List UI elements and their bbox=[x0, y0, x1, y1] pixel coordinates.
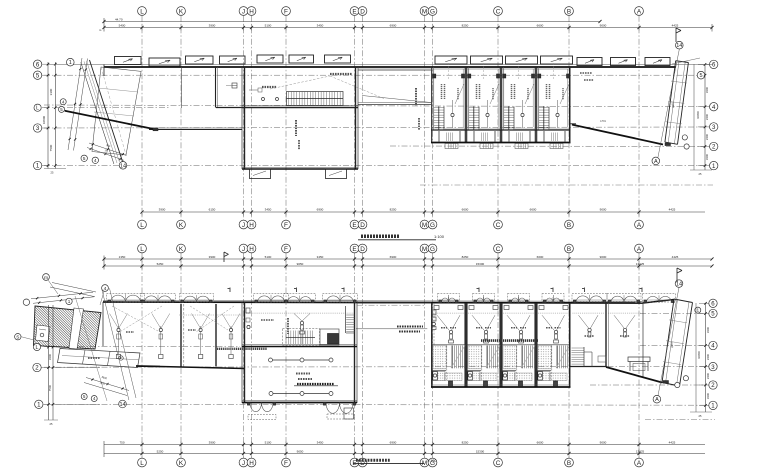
svg-text:7500: 7500 bbox=[48, 384, 52, 391]
svg-text:14: 14 bbox=[676, 282, 682, 288]
svg-text:F: F bbox=[284, 222, 288, 229]
right row bubbles top plan bbox=[652, 41, 718, 169]
middle hall radiator runs bbox=[269, 358, 339, 396]
annex corridor white band bbox=[69, 308, 84, 349]
svg-text:K: K bbox=[179, 222, 184, 229]
svg-text:10800: 10800 bbox=[697, 351, 701, 359]
middle hall east stair fragment bbox=[346, 306, 355, 333]
bottom plan north wall bbox=[103, 300, 674, 304]
svg-text:8250: 8250 bbox=[390, 208, 397, 212]
module B3 upper fixtures bbox=[503, 295, 534, 343]
module T4 interior annotation bbox=[538, 63, 570, 128]
top plan terrace right of modules bbox=[416, 67, 594, 143]
svg-text:K: K bbox=[179, 246, 184, 253]
svg-text:8250: 8250 bbox=[462, 24, 469, 28]
svg-text:9000: 9000 bbox=[600, 255, 607, 259]
svg-text:14: 14 bbox=[119, 402, 125, 408]
svg-text:3900: 3900 bbox=[159, 208, 166, 212]
svg-text:J: J bbox=[242, 246, 245, 253]
module B4 stair bbox=[538, 346, 570, 381]
annex leader circles left bbox=[15, 274, 109, 340]
horizontal row axes bottom plan bbox=[44, 314, 715, 420]
middle hall stair top plan bbox=[287, 92, 344, 106]
unit B5 small stair bbox=[572, 347, 593, 367]
svg-text:M: M bbox=[422, 246, 427, 253]
svg-text:6900: 6900 bbox=[390, 255, 397, 259]
units east of module row (bottom plan) bbox=[570, 302, 643, 377]
svg-text:3300: 3300 bbox=[706, 326, 710, 333]
svg-text:F: F bbox=[284, 460, 288, 467]
svg-text:m: m bbox=[44, 276, 48, 281]
svg-text:4: 4 bbox=[94, 158, 97, 163]
mid annotation text strip left wing bbox=[217, 348, 267, 350]
svg-text:6600: 6600 bbox=[462, 208, 469, 212]
bottom dimension line of top plan bbox=[140, 208, 705, 216]
svg-text:J: J bbox=[242, 8, 245, 15]
module B1 west wall valve cluster bbox=[432, 303, 437, 345]
svg-text:H: H bbox=[249, 246, 254, 253]
module T1 interior annotation bbox=[433, 63, 465, 128]
module T1 stair bbox=[434, 107, 444, 131]
svg-text:3300: 3300 bbox=[48, 353, 52, 360]
svg-text:M: M bbox=[422, 222, 427, 229]
left wing walls bottom plan bbox=[103, 302, 245, 369]
module T4 stair bbox=[539, 107, 549, 131]
right dimension line top plan bbox=[676, 28, 712, 176]
left row bubbles top plan bbox=[33, 60, 66, 170]
svg-text:4: 4 bbox=[712, 104, 716, 111]
module B2 lower rooms bbox=[466, 370, 497, 386]
tilted annex bottom plan right bbox=[662, 299, 693, 386]
svg-text:A: A bbox=[655, 397, 659, 403]
svg-text:3450: 3450 bbox=[265, 208, 272, 212]
bottom plan entrance door arcs bbox=[108, 294, 674, 303]
svg-text:6900: 6900 bbox=[390, 24, 397, 28]
svg-text:13425: 13425 bbox=[636, 262, 645, 266]
unit B5/B6 upper fixtures bbox=[573, 313, 642, 337]
top dimension lines of bottom plan bbox=[102, 255, 713, 270]
module B1 upper fixtures bbox=[433, 295, 464, 343]
middle hall bottom plan walls bbox=[242, 302, 357, 403]
module B3 walls bbox=[501, 303, 536, 387]
svg-text:K: K bbox=[179, 8, 184, 15]
svg-text:3300: 3300 bbox=[706, 392, 710, 399]
svg-text:E: E bbox=[352, 8, 356, 15]
svg-text:4: 4 bbox=[104, 286, 107, 292]
svg-text:C: C bbox=[496, 460, 501, 467]
svg-text:5250: 5250 bbox=[157, 450, 164, 454]
svg-text:B: B bbox=[567, 246, 571, 253]
horizontal row axes top plan bbox=[44, 75, 713, 185]
svg-text:L: L bbox=[36, 106, 39, 112]
section flag bottom right bbox=[676, 268, 678, 282]
svg-text:8250: 8250 bbox=[462, 441, 469, 445]
svg-text:L: L bbox=[36, 345, 39, 351]
module B3 stair bbox=[503, 346, 535, 381]
module T4 entry steps bbox=[544, 129, 571, 149]
middle hall annotations bbox=[249, 74, 385, 150]
svg-text:5100: 5100 bbox=[265, 441, 272, 445]
module T3 interior annotation bbox=[503, 63, 535, 128]
annex tilted dimension lines (bottom plan) bbox=[31, 292, 95, 304]
module B1 stair bbox=[433, 346, 465, 381]
svg-text:5250: 5250 bbox=[157, 262, 164, 266]
left row bubbles bottom plan bbox=[33, 343, 100, 408]
vertical grid axes top plan bbox=[142, 16, 639, 220]
svg-text:4425: 4425 bbox=[669, 441, 676, 445]
svg-text:14: 14 bbox=[676, 43, 682, 49]
annex small room bbox=[36, 325, 51, 342]
annotation strip across module row bbox=[481, 339, 538, 342]
tilted annex axis circles bbox=[67, 58, 127, 169]
svg-text:10800: 10800 bbox=[42, 115, 46, 124]
grid axis bubbles bottom row bbox=[138, 458, 644, 467]
module B1 walls bbox=[431, 303, 466, 387]
module T2 entry steps bbox=[474, 129, 501, 149]
svg-text:13425: 13425 bbox=[636, 450, 645, 454]
svg-text:2400: 2400 bbox=[706, 353, 710, 360]
svg-text:3450: 3450 bbox=[317, 441, 324, 445]
svg-text:F: F bbox=[284, 8, 288, 15]
svg-text:M: M bbox=[422, 8, 427, 15]
svg-text:3300: 3300 bbox=[49, 88, 53, 95]
grid axis bubbles below top plan bbox=[138, 220, 644, 229]
tilted annex top-left: main hall outline bbox=[92, 67, 141, 155]
P marks above canopies bbox=[228, 288, 643, 293]
svg-text:1:100: 1:100 bbox=[434, 234, 445, 239]
svg-text:3900: 3900 bbox=[209, 24, 216, 28]
svg-text:3900: 3900 bbox=[209, 441, 216, 445]
module B2 stair bbox=[468, 346, 500, 381]
module B4 walls bbox=[536, 303, 571, 387]
svg-text:7500: 7500 bbox=[49, 144, 53, 151]
svg-text:4425: 4425 bbox=[672, 24, 679, 28]
svg-text:H: H bbox=[249, 222, 254, 229]
svg-text:1:100: 1:100 bbox=[427, 459, 437, 463]
svg-text:750: 750 bbox=[119, 441, 124, 445]
svg-text:9000: 9000 bbox=[600, 208, 607, 212]
module B4 upper fixtures bbox=[538, 295, 569, 343]
tilted annex top-left: corridor strip bbox=[81, 60, 123, 164]
radiator symbols near annex bbox=[598, 356, 650, 371]
thick ramp edge diagonal left bbox=[65, 111, 158, 131]
right row bubbles bottom plan bbox=[699, 299, 717, 410]
thick ramp edge diagonal right (top plan) bbox=[572, 119, 663, 145]
annex axis tilted lines extended bbox=[75, 288, 136, 408]
svg-text:6600: 6600 bbox=[537, 441, 544, 445]
module T1 entry steps bbox=[439, 129, 466, 149]
svg-text:10800: 10800 bbox=[696, 111, 700, 119]
svg-text:6600: 6600 bbox=[537, 24, 544, 28]
vertical grid axes bottom plan bbox=[142, 253, 639, 458]
left wing interior fixtures bbox=[110, 306, 243, 359]
svg-text:F: F bbox=[284, 246, 288, 253]
svg-text:3450: 3450 bbox=[317, 24, 324, 28]
svg-text:H: H bbox=[249, 8, 254, 15]
svg-text:15300: 15300 bbox=[476, 262, 485, 266]
svg-text:S: S bbox=[16, 334, 19, 339]
svg-text:3900: 3900 bbox=[209, 255, 216, 259]
courtyard terrace top plan bbox=[358, 68, 431, 130]
top plan roof canopies with slope arrows bbox=[115, 55, 671, 66]
svg-text:9050: 9050 bbox=[297, 450, 304, 454]
svg-text:44.70: 44.70 bbox=[115, 17, 123, 21]
svg-text:5: 5 bbox=[699, 73, 702, 79]
svg-text:2400: 2400 bbox=[705, 113, 709, 120]
svg-text:L: L bbox=[140, 246, 144, 253]
svg-text:9000: 9000 bbox=[600, 24, 607, 28]
module T1 walls bbox=[431, 67, 466, 143]
annex lower tilted dimension bbox=[84, 376, 129, 396]
svg-text:G: G bbox=[430, 222, 435, 229]
title of bottom plan bbox=[353, 459, 437, 463]
svg-text:1: 1 bbox=[69, 60, 72, 66]
svg-text:B: B bbox=[567, 8, 571, 15]
module B1 lower rooms bbox=[431, 370, 462, 386]
svg-text:4425: 4425 bbox=[669, 208, 676, 212]
middle hall upper fixtures bbox=[246, 308, 354, 344]
module B2 walls bbox=[466, 303, 501, 387]
svg-text:J: J bbox=[242, 460, 245, 467]
svg-text:4.5%: 4.5% bbox=[600, 119, 607, 123]
svg-text:8250: 8250 bbox=[462, 255, 469, 259]
section flag top right bbox=[675, 28, 677, 42]
thick ramp diagonal right (bottom plan) bbox=[606, 367, 662, 383]
top plan building north wall bbox=[48, 65, 712, 77]
svg-text:15300: 15300 bbox=[476, 450, 485, 454]
svg-text:C: C bbox=[496, 8, 501, 15]
middle hall stair bottom plan bbox=[283, 329, 340, 346]
tilted annex dimension lines bbox=[87, 143, 127, 160]
title of top plan bbox=[224, 234, 445, 262]
svg-text:B: B bbox=[567, 460, 571, 467]
left dimension lines top plan bbox=[42, 62, 66, 175]
svg-text:H: H bbox=[249, 460, 254, 467]
svg-text:5: 5 bbox=[83, 156, 86, 161]
svg-text:6600: 6600 bbox=[530, 208, 537, 212]
module B2 upper fixtures bbox=[468, 295, 499, 343]
svg-text:A: A bbox=[637, 246, 642, 253]
bottom dimension lines of bottom plan bbox=[104, 441, 705, 457]
annex lower wing rooms bbox=[58, 349, 141, 368]
svg-text:1: 1 bbox=[712, 163, 716, 170]
svg-text:6900: 6900 bbox=[317, 208, 324, 212]
svg-text:3300: 3300 bbox=[705, 86, 709, 93]
svg-text:A: A bbox=[637, 8, 642, 15]
module B4 lower rooms bbox=[536, 370, 567, 386]
svg-text:6600: 6600 bbox=[537, 255, 544, 259]
top dimension numbers bbox=[99, 17, 679, 32]
svg-text:C: C bbox=[496, 246, 501, 253]
grid axis bubbles top row bbox=[138, 7, 644, 16]
section flag near title bbox=[223, 252, 225, 262]
module B3 lower rooms bbox=[501, 370, 532, 386]
top plan left wing walls bbox=[149, 67, 242, 130]
right dimension line bottom plan bbox=[690, 302, 712, 418]
svg-text:A: A bbox=[654, 159, 658, 165]
left hatched annex bottom plan bbox=[34, 306, 102, 349]
svg-text:A: A bbox=[637, 222, 642, 229]
svg-text:K: K bbox=[179, 460, 184, 467]
tilted annex top plan right bbox=[665, 61, 689, 145]
svg-text:5100: 5100 bbox=[265, 255, 272, 259]
module T2 walls bbox=[466, 67, 501, 143]
svg-text:G: G bbox=[430, 8, 435, 15]
svg-text:J: J bbox=[242, 222, 245, 229]
svg-text:D: D bbox=[360, 222, 365, 229]
svg-text:L: L bbox=[140, 8, 144, 15]
svg-text:D: D bbox=[360, 8, 365, 15]
module T3 stair bbox=[504, 107, 514, 131]
grid axis bubbles above bottom plan bbox=[138, 244, 644, 253]
svg-text:2400: 2400 bbox=[706, 372, 710, 379]
svg-text:9050: 9050 bbox=[297, 262, 304, 266]
svg-text:9000: 9000 bbox=[600, 441, 607, 445]
svg-text:D: D bbox=[360, 246, 365, 253]
module T3 walls bbox=[501, 67, 536, 143]
svg-text:6: 6 bbox=[712, 62, 716, 69]
svg-text:3300: 3300 bbox=[705, 153, 709, 160]
terrace lines bottom plan east bbox=[357, 303, 431, 305]
middle hall bottom door arcs bbox=[247, 403, 355, 420]
svg-text:14: 14 bbox=[120, 163, 126, 169]
svg-text:C: C bbox=[496, 222, 501, 229]
svg-text:5400: 5400 bbox=[119, 24, 126, 28]
svg-text:L: L bbox=[140, 460, 144, 467]
right mid annotation two lines bbox=[356, 327, 427, 332]
left dimension lines bottom plan bbox=[44, 305, 58, 426]
svg-text:6900: 6900 bbox=[390, 441, 397, 445]
bottom plan dashed canopies bbox=[107, 294, 676, 303]
module T4 walls bbox=[536, 67, 571, 143]
svg-text:E: E bbox=[352, 246, 356, 253]
svg-text:E: E bbox=[352, 222, 356, 229]
svg-text:A: A bbox=[637, 460, 642, 467]
svg-text:1: 1 bbox=[68, 299, 71, 304]
svg-text:2400: 2400 bbox=[705, 133, 709, 140]
svg-text:6150: 6150 bbox=[209, 208, 216, 212]
svg-text:4425: 4425 bbox=[672, 255, 679, 259]
svg-text:G: G bbox=[430, 246, 435, 253]
module T3 entry steps bbox=[509, 129, 536, 149]
svg-text:L: L bbox=[140, 222, 144, 229]
svg-text:2: 2 bbox=[712, 144, 716, 151]
middle hall walls top plan bbox=[242, 67, 358, 169]
module T2 interior annotation bbox=[468, 63, 500, 128]
right annex leader line bbox=[658, 49, 700, 157]
tilted axis dimension lines left annex bbox=[68, 58, 88, 151]
module T2 stair bbox=[469, 107, 479, 131]
canopies below middle hall bbox=[250, 169, 347, 179]
svg-text:B: B bbox=[567, 222, 571, 229]
top dimension lines bbox=[102, 18, 713, 32]
bottom annex leader line bbox=[653, 268, 701, 403]
svg-text:5100: 5100 bbox=[265, 24, 272, 28]
svg-text:3450: 3450 bbox=[317, 255, 324, 259]
svg-text:1350: 1350 bbox=[119, 255, 126, 259]
svg-text:3: 3 bbox=[712, 124, 716, 131]
